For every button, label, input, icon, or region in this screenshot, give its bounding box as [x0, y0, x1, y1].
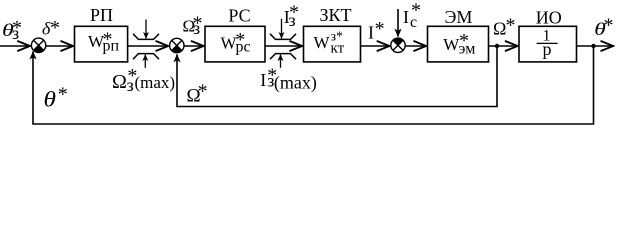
block ЭМ box — [428, 26, 489, 62]
svg-text:РП: РП — [90, 5, 113, 25]
svg-text:Ω: Ω — [493, 19, 506, 39]
svg-text:*: * — [375, 18, 385, 40]
svg-text:I: I — [403, 7, 409, 27]
block РС box — [205, 26, 265, 62]
limiter 2 saturation marks after РС — [270, 19, 296, 68]
label 1/p inside ИО — [537, 27, 558, 58]
feedback wire Omega* from node after ЭМ down, left, up into junction 2 — [177, 46, 497, 107]
svg-text:рс: рс — [236, 38, 251, 55]
svg-text:θ: θ — [44, 88, 57, 112]
wire block ЭМ to block ИО with node — [489, 45, 518, 47]
wire input to summing junction 1 — [0, 45, 30, 47]
label Omega* feedback — [187, 81, 208, 107]
label I_z(max)* below limiter 2 — [260, 65, 317, 94]
svg-text:эм: эм — [459, 41, 476, 58]
svg-text:ЗКТ: ЗКТ — [319, 5, 351, 25]
node after ИО — [591, 44, 595, 48]
summing junction 2 — [170, 38, 184, 52]
summing junction 1 — [31, 38, 45, 52]
wire block РП through limiter 1 to junction 2 — [128, 45, 168, 47]
svg-text:ЭМ: ЭМ — [445, 7, 473, 27]
label I* after ЗКТ — [368, 18, 385, 43]
svg-text:(max): (max) — [274, 73, 317, 94]
svg-text:кт: кт — [331, 41, 345, 57]
svg-text:РС: РС — [228, 5, 250, 25]
svg-text:з: з — [193, 18, 200, 38]
label theta_z* input — [2, 17, 22, 43]
wire block ЗКТ to junction 3 — [361, 45, 390, 47]
svg-text:*: * — [58, 84, 68, 106]
block ЗКТ box — [304, 26, 361, 62]
svg-text:з: з — [127, 75, 134, 95]
wire junction 2 to block РС — [184, 45, 203, 47]
label W_рп* inside РП — [88, 28, 120, 54]
svg-text:с: с — [410, 14, 417, 31]
wire junction 3 to block ЭМ — [405, 45, 426, 47]
label Omega_z* above junction 2 — [183, 13, 203, 38]
feedback wire theta* from output node down, left, up into junction 1 — [33, 46, 594, 124]
svg-text:p: p — [543, 39, 552, 59]
svg-text:I: I — [260, 70, 266, 90]
wire block ИО to output — [577, 45, 613, 47]
svg-text:(max): (max) — [135, 73, 176, 92]
label Omega* after ЭМ — [493, 14, 516, 38]
label W_рс* inside РС — [221, 29, 251, 55]
label I_z* above limiter 2 — [284, 1, 299, 29]
block РП box — [75, 26, 128, 62]
svg-text:Ω: Ω — [112, 71, 127, 93]
svg-text:W: W — [314, 33, 331, 52]
node after ЭМ — [495, 44, 499, 48]
label W_кт^з* inside ЗКТ — [314, 30, 345, 57]
svg-text:з: з — [12, 23, 19, 43]
svg-text:з: з — [289, 10, 296, 30]
label I_c* disturbance — [403, 0, 421, 31]
label theta* output — [594, 15, 613, 40]
svg-text:I: I — [368, 22, 374, 42]
label W_эм* inside ЭМ — [443, 30, 475, 58]
label theta* feedback — [44, 84, 68, 112]
limiter 1 saturation marks after РП — [133, 20, 159, 68]
label delta* — [42, 17, 60, 39]
svg-text:*: * — [198, 81, 208, 103]
svg-text:*: * — [604, 15, 614, 37]
svg-text:*: * — [50, 17, 60, 39]
svg-text:рп: рп — [103, 38, 120, 55]
block ИО box — [519, 26, 577, 62]
svg-text:*: * — [506, 14, 516, 36]
disturbance input arrow Ic* into junction 3 — [397, 9, 399, 37]
wire junction 1 to block РП — [46, 45, 73, 47]
label Omega_z(max)* below limiter 1 — [112, 65, 175, 95]
summing junction 3 — [391, 38, 405, 52]
wire block РС through limiter 2 to block ЗКТ — [265, 45, 302, 47]
svg-text:ИО: ИО — [536, 8, 562, 28]
